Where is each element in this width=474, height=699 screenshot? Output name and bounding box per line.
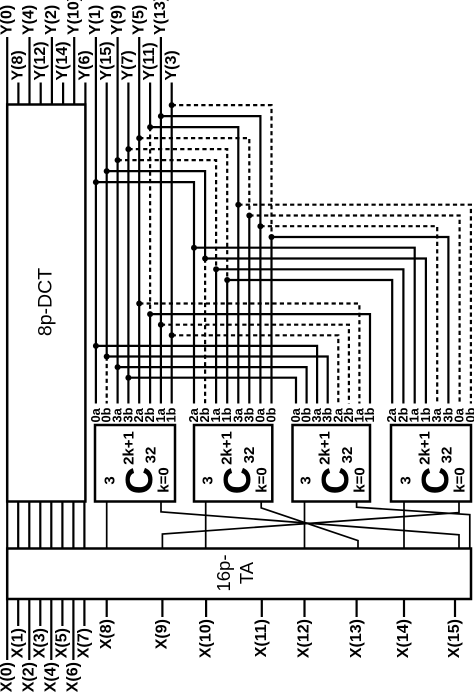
wire X(7) [83, 599, 85, 626]
wire U2 pin 5 tap to U4 pin 8 [238, 205, 471, 404]
svg-text:k=0: k=0 [254, 467, 271, 492]
wire Y(13) vertical [160, 37, 162, 404]
wire Y(5) vertical [138, 37, 140, 404]
wire X(8) [106, 599, 108, 617]
wire Y(13) tap-2 to U3 pin 6 [161, 325, 349, 404]
wire Y(11) lower [149, 314, 151, 403]
svg-text:X(10): X(10) [197, 619, 214, 658]
junction Y(7) tap-1 [125, 146, 131, 152]
junction Y(9) tap-1 [115, 157, 121, 163]
wire X(14) [403, 599, 405, 617]
wire U2 pin 7 stub lower [259, 226, 261, 403]
svg-text:Y(7): Y(7) [120, 50, 137, 80]
wire U2 pin 8 tap to U4 pin 6 [272, 237, 449, 404]
wire Y(4) [28, 37, 30, 105]
label U1 C32 2k+1 k=0..3 [101, 431, 172, 494]
svg-text:0b: 0b [264, 407, 279, 422]
wire X(2) [28, 599, 30, 660]
svg-text:3: 3 [298, 476, 315, 484]
wire Y(0) [6, 37, 8, 105]
wire U2 pin 6 stub lower [248, 216, 250, 404]
wire Y(12) [40, 83, 42, 105]
wire U2 pin 2 tap to U4 pin 4 [205, 259, 426, 404]
svg-text:8p-DCT: 8p-DCT [35, 268, 57, 336]
block C-multiplier U1 box [95, 425, 175, 502]
wire U2 pin 3 tap to U4 pin 2 [216, 269, 403, 403]
junction U2 pin 1 tap [191, 245, 197, 251]
wire DCT-TA connector 3 [39, 502, 41, 549]
wire Y(1) vertical [95, 37, 97, 404]
junction U2 pin 4 tap [224, 277, 230, 283]
svg-text:3: 3 [200, 476, 217, 484]
wire Y(9) tap-2 to U3 pin 2 [118, 367, 307, 403]
wire Y(7) vertical [127, 83, 129, 404]
block 16p-TA box [7, 549, 471, 600]
svg-text:X(5): X(5) [54, 628, 71, 658]
svg-text:2k+1: 2k+1 [317, 431, 334, 465]
svg-text:0b: 0b [463, 407, 474, 422]
svg-text:k=0: k=0 [155, 467, 172, 492]
wire X(0) [6, 599, 8, 660]
wire DCT-TA connector 6 [72, 502, 74, 549]
wire U4 out a to TA [403, 502, 405, 549]
wire Y(7) to U2 pin 4 horizontal+down [128, 149, 227, 280]
svg-text:X(3): X(3) [32, 628, 49, 658]
junction Y(5) tap-2 [136, 301, 142, 307]
junction Y(3) tap-1 [169, 102, 175, 108]
wire Y(9) to U2 pin 3 horizontal+down [118, 160, 217, 269]
svg-text:Y(1): Y(1) [87, 5, 104, 35]
svg-text:X(7): X(7) [76, 628, 93, 658]
svg-text:16p-: 16p- [213, 554, 234, 591]
wire U2 pin 8 stub lower [270, 237, 272, 404]
wire U4 out b to TA [162, 502, 459, 549]
wire Y(8) [17, 83, 19, 105]
svg-text:X(0): X(0) [0, 662, 15, 692]
wire Y(9) vertical [116, 37, 118, 404]
wire Y(5) to U2 pin 6 horizontal+down [139, 138, 249, 215]
wire Y(11) upper [149, 83, 151, 128]
wire Y(2) [51, 37, 53, 105]
wire X(6) [72, 599, 74, 660]
wire Y(11) middle dashed [149, 127, 151, 314]
svg-text:Y(12): Y(12) [32, 41, 49, 80]
wire Y(7) tap-2 to U3 pin 1 [128, 378, 296, 404]
svg-text:2k+1: 2k+1 [416, 431, 433, 465]
wire X(3) [39, 599, 41, 626]
wire X(5) [61, 599, 63, 626]
wire X(15) [454, 599, 456, 617]
junction Y(15) tap-2 [104, 354, 110, 360]
svg-text:X(12): X(12) [296, 619, 313, 658]
wire U2 pin 7 tap to U4 pin 5 [260, 226, 437, 403]
wire U3 out b to TA [357, 502, 470, 549]
svg-text:32: 32 [339, 447, 356, 464]
svg-text:3: 3 [397, 476, 414, 484]
block C-multiplier U2 box [194, 425, 272, 502]
wire Y(13) to U2 pin 7 horizontal+down [161, 116, 261, 226]
junction U2 pin 7 tap [257, 223, 263, 229]
label U3 C32 2k+1 k=0..3 [298, 431, 369, 494]
wire Y(6) [84, 83, 86, 105]
wire U2 pin 4 tap to U4 pin 1 [227, 280, 392, 404]
wire Y(1) to U2 pin 1 horizontal+down [96, 182, 194, 248]
svg-text:Y(14): Y(14) [54, 41, 71, 80]
svg-text:X(4): X(4) [43, 662, 60, 692]
wire Y(15) upper [106, 83, 108, 357]
svg-text:2k+1: 2k+1 [120, 431, 137, 465]
svg-text:X(2): X(2) [21, 662, 38, 692]
junction Y(3) tap-2 [169, 332, 175, 338]
wire U1 out b to TA [161, 502, 459, 549]
wire DCT-TA connector 7 [83, 502, 85, 549]
wire X(10) [205, 599, 207, 617]
wire U2 pin 5 stub lower [237, 205, 239, 404]
junction Y(11) tap-2 [147, 311, 153, 317]
svg-text:2k+1: 2k+1 [219, 431, 236, 465]
svg-text:k=0: k=0 [352, 467, 369, 492]
wire Y(3) to U2 pin 8 horizontal+down [172, 105, 272, 237]
wire Y(15) to U2 pin 2 horizontal+down [107, 171, 205, 258]
svg-text:32: 32 [143, 447, 160, 464]
svg-text:Y(8): Y(8) [10, 50, 27, 80]
wire X(13) [356, 599, 358, 617]
svg-text:Y(13): Y(13) [152, 0, 169, 35]
wire U2 out b to TA [261, 502, 358, 549]
wire X(12) [303, 599, 305, 617]
wire U2 pin 3 stub lower [215, 269, 217, 403]
junction Y(1) tap-2 [93, 343, 99, 349]
wire X(4) [50, 599, 52, 660]
svg-text:Y(5): Y(5) [130, 5, 147, 35]
junction U2 pin 8 tap [269, 234, 275, 240]
wire U1 out a to TA [106, 502, 108, 549]
junction Y(15) tap-1 [104, 168, 110, 174]
label U2 C32 2k+1 k=0..3 [200, 431, 271, 494]
svg-text:Y(3): Y(3) [163, 50, 180, 80]
wire Y(3) vertical [171, 83, 173, 404]
svg-text:Y(2): Y(2) [43, 5, 60, 35]
svg-text:32: 32 [439, 447, 456, 464]
label U4 C32 2k+1 k=0..3 [397, 431, 468, 494]
svg-text:k=0: k=0 [451, 467, 468, 492]
wire Y(1) tap-2 to U3 pin 3 [96, 346, 317, 404]
wire Y(11) to U2 pin 5 horizontal+down [150, 127, 238, 205]
svg-text:X(11): X(11) [253, 619, 270, 657]
block C-multiplier U4 box [391, 425, 471, 502]
svg-text:3: 3 [101, 476, 118, 484]
wire U2 pin 4 stub lower [226, 280, 228, 404]
svg-text:X(1): X(1) [9, 628, 26, 658]
block 8p-DCT box [7, 105, 85, 502]
wire DCT-TA connector 1 [17, 502, 19, 549]
wire DCT-TA connector 0 [6, 502, 8, 549]
wire Y(5) tap-2 to U3 pin 7 [139, 304, 359, 404]
svg-text:32: 32 [241, 447, 258, 464]
wire X(1) [17, 599, 19, 626]
junction U2 pin 6 tap [246, 213, 252, 219]
wire U2 pin 2 stub lower [204, 259, 206, 404]
svg-text:1b: 1b [164, 407, 179, 422]
wire X(9) [161, 599, 163, 617]
wire Y(14) [62, 83, 64, 105]
wire DCT-TA connector 5 [61, 502, 63, 549]
wire DCT-TA connector 2 [28, 502, 30, 549]
junction Y(5) tap-1 [136, 135, 142, 141]
block C-multiplier U3 box [293, 425, 371, 502]
junction Y(1) tap-1 [93, 179, 99, 185]
junction U2 pin 3 tap [213, 266, 219, 272]
wire DCT-TA connector 4 [50, 502, 52, 549]
junction Y(11) tap-1 [147, 124, 153, 130]
wire Y(11) tap-2 to U3 pin 8 [150, 314, 370, 403]
svg-text:X(13): X(13) [348, 619, 365, 658]
junction U2 pin 5 tap [235, 202, 241, 208]
wire U2 out a to TA [205, 502, 207, 549]
wire Y(10) [73, 37, 75, 105]
junction Y(13) tap-1 [158, 113, 164, 119]
svg-text:Y(11): Y(11) [141, 42, 158, 80]
junction U2 pin 2 tap [202, 256, 208, 262]
svg-text:Y(10): Y(10) [65, 0, 82, 35]
svg-text:Y(6): Y(6) [77, 50, 94, 80]
svg-text:X(9): X(9) [154, 619, 171, 649]
wire Y(15) lower dashed [106, 357, 108, 404]
svg-text:X(15): X(15) [446, 619, 463, 658]
svg-text:Y(4): Y(4) [21, 5, 38, 35]
svg-text:Y(9): Y(9) [109, 5, 126, 35]
wire U2 pin 1 tap to U4 pin 3 [194, 248, 415, 404]
wire Y(3) tap-2 to U3 pin 5 [172, 335, 339, 403]
svg-text:1b: 1b [362, 407, 377, 422]
junction Y(13) tap-2 [158, 322, 164, 328]
svg-text:X(6): X(6) [65, 662, 82, 692]
svg-text:TA: TA [236, 561, 257, 584]
svg-text:X(14): X(14) [395, 619, 412, 658]
svg-text:X(8): X(8) [98, 619, 115, 649]
wire U2 pin 1 stub lower [193, 248, 195, 404]
junction Y(7) tap-2 [125, 375, 131, 381]
svg-text:Y(15): Y(15) [98, 41, 115, 80]
wire U2 pin 6 tap to U4 pin 7 [249, 216, 459, 404]
wire X(11) [261, 599, 263, 617]
wire Y(15) tap-2 to U3 pin 4 [107, 357, 328, 404]
junction Y(9) tap-2 [115, 364, 121, 370]
wire U3 out a to TA [304, 502, 306, 549]
svg-text:Y(0): Y(0) [0, 5, 15, 35]
